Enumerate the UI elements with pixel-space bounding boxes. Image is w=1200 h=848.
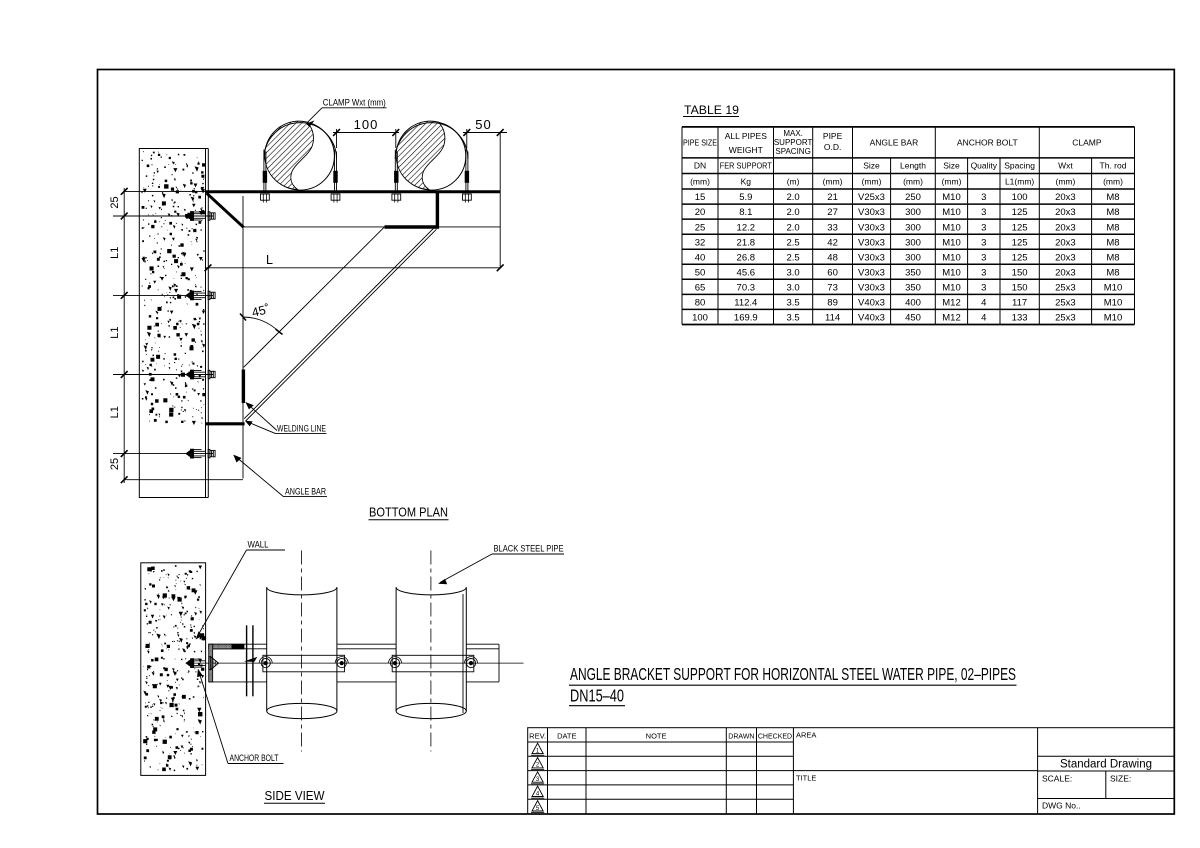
svg-text:3.5: 3.5 (786, 298, 799, 309)
svg-text:SCALE:: SCALE: (1042, 773, 1072, 783)
svg-text:Size: Size (943, 161, 960, 171)
svg-text:125: 125 (1012, 207, 1028, 218)
svg-text:SUPPORT: SUPPORT (774, 138, 813, 147)
svg-text:3.0: 3.0 (786, 267, 799, 278)
45 degree angle annotation (243, 317, 279, 332)
svg-text:112.4: 112.4 (734, 298, 757, 309)
svg-text:21.8: 21.8 (737, 237, 756, 248)
svg-text:PIPE: PIPE (823, 131, 843, 141)
svg-text:33: 33 (827, 222, 838, 233)
svg-text:NOTE: NOTE (646, 731, 667, 740)
svg-text:45.6: 45.6 (737, 267, 756, 278)
svg-text:Size: Size (863, 161, 880, 171)
svg-text:(mm): (mm) (823, 177, 843, 187)
clamp bolt (337, 659, 346, 668)
small arrow at gusset (244, 657, 257, 662)
svg-text:SPACING: SPACING (775, 147, 810, 156)
svg-text:M10: M10 (942, 207, 960, 218)
page frame (98, 70, 1175, 815)
clamp band (395, 123, 468, 159)
svg-text:DATE: DATE (557, 731, 576, 740)
wall speckle fill (side view) (143, 565, 206, 771)
svg-text:WEIGHT: WEIGHT (729, 145, 763, 155)
svg-text:73: 73 (827, 283, 838, 294)
svg-text:DRAWN: DRAWN (728, 733, 754, 740)
svg-text:4: 4 (981, 313, 986, 324)
svg-text:3: 3 (981, 283, 986, 294)
angle bracket thick outline (206, 192, 501, 424)
clamp leg (394, 150, 396, 191)
svg-text:BLACK STEEL PIPE: BLACK STEEL PIPE (494, 544, 564, 555)
svg-text:M8: M8 (1106, 267, 1119, 278)
svg-text:25: 25 (109, 458, 121, 470)
svg-text:Kg: Kg (741, 177, 752, 187)
clamp tensioner (333, 171, 337, 183)
svg-text:V40x3: V40x3 (858, 313, 885, 324)
svg-text:ANGLE BAR: ANGLE BAR (285, 486, 326, 497)
svg-text:3: 3 (981, 192, 986, 203)
svg-text:ANGLE BAR: ANGLE BAR (870, 138, 919, 148)
svg-text:21: 21 (827, 192, 838, 203)
svg-text:2.0: 2.0 (786, 192, 799, 203)
svg-text:M10: M10 (942, 267, 960, 278)
brace diagonal (double edge) (244, 228, 434, 419)
clamp leg (465, 150, 467, 191)
svg-text:48: 48 (827, 252, 838, 263)
svg-text:42: 42 (827, 237, 838, 248)
svg-text:100: 100 (1012, 192, 1028, 203)
svg-text:3: 3 (981, 252, 986, 263)
svg-text:(m): (m) (787, 177, 800, 187)
svg-text:TITLE: TITLE (796, 773, 816, 782)
svg-text:350: 350 (905, 267, 921, 278)
inner line right of pipe2 (462, 594, 464, 713)
svg-text:L1: L1 (109, 406, 121, 418)
svg-text:2.0: 2.0 (786, 207, 799, 218)
svg-text:MAX.: MAX. (783, 129, 803, 138)
svg-text:M12: M12 (942, 313, 960, 324)
svg-text:DN15–40: DN15–40 (570, 686, 624, 706)
brace diagonal (single edge) (244, 227, 385, 367)
svg-text:3: 3 (981, 237, 986, 248)
title block grid (528, 728, 1175, 814)
svg-text:L1: L1 (109, 326, 121, 338)
svg-text:169.9: 169.9 (734, 313, 758, 324)
svg-text:15: 15 (695, 192, 706, 203)
svg-text:M8: M8 (1106, 192, 1119, 203)
svg-text:DN: DN (694, 161, 706, 171)
svg-text:125: 125 (1012, 252, 1028, 263)
svg-text:250: 250 (905, 192, 921, 203)
table 19 grid (682, 127, 1135, 325)
svg-text:(mm): (mm) (942, 177, 962, 187)
pipe centerline (430, 551, 432, 752)
black steel pipe (side view) x=431.2 (396, 587, 466, 718)
table header texts (683, 129, 1127, 324)
svg-text:50: 50 (695, 267, 706, 278)
dimension 50 (463, 129, 507, 148)
anchor bolt (plan) y=295.4 (186, 291, 215, 300)
svg-text:32: 32 (695, 237, 706, 248)
svg-text:(mm): (mm) (690, 177, 710, 187)
svg-text:M8: M8 (1106, 207, 1119, 218)
svg-text:V30x3: V30x3 (858, 222, 885, 233)
svg-text:TABLE 19: TABLE 19 (684, 103, 739, 117)
pipe hatch (yin-yang section) (396, 121, 445, 189)
clamp band (264, 123, 337, 159)
title block labels (529, 731, 1152, 811)
dimension 100 (333, 129, 399, 148)
svg-text:3.5: 3.5 (786, 313, 799, 324)
svg-text:133: 133 (1012, 313, 1028, 324)
svg-text:150: 150 (1012, 267, 1028, 278)
svg-text:100: 100 (354, 117, 379, 132)
svg-text:60: 60 (827, 267, 838, 278)
svg-text:12.2: 12.2 (737, 222, 756, 233)
pipe clamp strap (side view) (392, 655, 474, 672)
svg-text:M10: M10 (1104, 313, 1122, 324)
svg-text:20x3: 20x3 (1055, 237, 1076, 248)
anchor bolt (plan) y=453.6 (186, 449, 215, 458)
svg-text:350: 350 (905, 283, 921, 294)
svg-text:M10: M10 (942, 192, 960, 203)
svg-text:150: 150 (1012, 283, 1028, 294)
pipe centerline (301, 551, 303, 752)
svg-text:M10: M10 (942, 237, 960, 248)
svg-text:25x3: 25x3 (1055, 313, 1076, 324)
svg-text:V25x3: V25x3 (858, 192, 885, 203)
svg-text:65: 65 (695, 283, 706, 294)
svg-text:20x3: 20x3 (1055, 267, 1076, 278)
dimension chain 25/L1/L1/L1/25 (113, 188, 243, 483)
svg-text:WALL: WALL (248, 540, 269, 551)
svg-text:L: L (266, 253, 273, 267)
svg-text:CLAMP Wxt (mm): CLAMP Wxt (mm) (323, 98, 386, 109)
gusset plate edge-on (double verticals) (246, 625, 248, 696)
svg-text:27: 27 (827, 207, 838, 218)
svg-text:25: 25 (109, 196, 121, 208)
svg-text:25x3: 25x3 (1055, 283, 1076, 294)
svg-text:FER SUPPORT: FER SUPPORT (720, 161, 772, 171)
svg-text:ANGLE BRACKET SUPPORT FOR HORI: ANGLE BRACKET SUPPORT FOR HORIZONTAL STE… (570, 664, 1016, 684)
anchor bolt (side view) (186, 659, 206, 668)
svg-text:20x3: 20x3 (1055, 222, 1076, 233)
svg-text:(mm): (mm) (862, 177, 882, 187)
svg-text:3: 3 (981, 222, 986, 233)
svg-text:(mm): (mm) (1103, 177, 1123, 187)
svg-text:300: 300 (905, 252, 921, 263)
svg-text:2.5: 2.5 (786, 252, 799, 263)
wall speckle fill (concrete) (142, 151, 206, 425)
clamp bolt (261, 659, 270, 668)
svg-text:M10: M10 (1104, 298, 1122, 309)
svg-text:20x3: 20x3 (1055, 252, 1076, 263)
svg-text:25x3: 25x3 (1055, 298, 1076, 309)
svg-text:O.D.: O.D. (824, 142, 841, 152)
bracket thin edges (243, 133, 500, 479)
svg-text:BOTTOM PLAN: BOTTOM PLAN (369, 506, 448, 520)
clamp leg (263, 150, 265, 191)
svg-text:M10: M10 (942, 283, 960, 294)
svg-text:400: 400 (905, 298, 921, 309)
svg-text:450: 450 (905, 313, 921, 324)
svg-text:WELDING LINE: WELDING LINE (277, 423, 326, 434)
clamp tensioner (263, 171, 267, 183)
svg-text:2.0: 2.0 (786, 222, 799, 233)
svg-text:5.9: 5.9 (739, 192, 752, 203)
svg-text:M8: M8 (1106, 252, 1119, 263)
svg-text:Standard Drawing: Standard Drawing (1060, 758, 1152, 770)
angle bar edges (side view) (209, 644, 500, 682)
angle section hatched legs (209, 644, 244, 682)
pipe clamp strap (side view) (263, 655, 345, 672)
svg-text:3.0: 3.0 (786, 283, 799, 294)
svg-text:CHECKED: CHECKED (758, 733, 792, 740)
svg-text:89: 89 (827, 298, 838, 309)
svg-text:L1: L1 (109, 247, 121, 259)
clamp nut below bar (331, 194, 340, 200)
svg-text:80: 80 (695, 298, 706, 309)
svg-text:V30x3: V30x3 (858, 252, 885, 263)
svg-text:Th. rod: Th. rod (1100, 161, 1127, 171)
wall (bottom plan) (139, 149, 208, 498)
svg-text:26.8: 26.8 (737, 252, 756, 263)
pipe hatch (yin-yang section) (265, 121, 314, 189)
svg-text:DWG No..: DWG No.. (1042, 801, 1081, 811)
svg-text:125: 125 (1012, 237, 1028, 248)
svg-text:M8: M8 (1106, 222, 1119, 233)
svg-text:Spacing: Spacing (1004, 161, 1035, 171)
svg-text:4: 4 (981, 298, 986, 309)
svg-text:40: 40 (695, 252, 706, 263)
svg-text:M8: M8 (1106, 237, 1119, 248)
svg-text:117: 117 (1012, 298, 1027, 309)
svg-text:(mm): (mm) (903, 177, 923, 187)
svg-text:ALL PIPES: ALL PIPES (725, 131, 768, 141)
svg-text:300: 300 (905, 237, 921, 248)
svg-text:300: 300 (905, 222, 921, 233)
svg-text:V30x3: V30x3 (858, 207, 885, 218)
pipe circle at x=300.2 (plan) (266, 122, 334, 190)
svg-text:25: 25 (695, 222, 706, 233)
svg-text:Quality: Quality (971, 161, 998, 171)
clamp bolt (466, 659, 475, 668)
svg-text:V40x3: V40x3 (858, 298, 885, 309)
svg-text:V30x3: V30x3 (858, 237, 885, 248)
svg-text:Length: Length (900, 161, 926, 171)
clamp tensioner (465, 171, 469, 183)
svg-text:70.3: 70.3 (737, 283, 756, 294)
clamp bolt (390, 659, 399, 668)
revision triangles 1-5 (532, 743, 543, 753)
svg-text:AREA: AREA (796, 731, 816, 740)
svg-text:50: 50 (475, 117, 491, 132)
svg-text:CLAMP: CLAMP (1072, 138, 1102, 148)
svg-text:PIPE SIZE: PIPE SIZE (683, 139, 717, 148)
bar centerline (side view) (186, 662, 524, 664)
pipe circle at x=431.6 (plan) (397, 122, 465, 190)
svg-text:100: 100 (692, 313, 708, 324)
svg-text:125: 125 (1012, 222, 1028, 233)
clamp tensioner (394, 171, 398, 183)
clamp nut below bar (261, 194, 270, 200)
svg-text:8.1: 8.1 (739, 207, 752, 218)
svg-text:SIDE VIEW: SIDE VIEW (265, 789, 325, 803)
svg-text:20x3: 20x3 (1055, 207, 1076, 218)
svg-text:V30x3: V30x3 (858, 267, 885, 278)
svg-text:ANCHOR BOLT: ANCHOR BOLT (957, 138, 1018, 148)
svg-text:(mm): (mm) (1055, 177, 1075, 187)
svg-text:SIZE:: SIZE: (1110, 773, 1131, 783)
svg-text:3: 3 (981, 267, 986, 278)
svg-text:Wxt: Wxt (1058, 161, 1073, 171)
svg-text:M12: M12 (942, 298, 960, 309)
black steel pipe (side view) x=301.8 (267, 587, 337, 718)
svg-text:20x3: 20x3 (1055, 192, 1076, 203)
svg-text:L1(mm): L1(mm) (1005, 177, 1034, 187)
svg-text:M10: M10 (942, 222, 960, 233)
svg-text:3: 3 (981, 207, 986, 218)
clamp nut below bar (392, 194, 401, 200)
svg-text:20: 20 (695, 207, 706, 218)
svg-text:V30x3: V30x3 (858, 283, 885, 294)
svg-text:2.5: 2.5 (786, 237, 799, 248)
clamp leg (334, 150, 336, 191)
clamp nut below bar (463, 194, 472, 200)
dimension L (206, 267, 501, 269)
anchor bolt (plan) y=216 (186, 212, 215, 221)
svg-text:300: 300 (905, 207, 921, 218)
wall (side view) (141, 563, 206, 776)
svg-text:M10: M10 (942, 252, 960, 263)
svg-text:ANCHOR BOLT: ANCHOR BOLT (230, 753, 279, 764)
svg-text:114: 114 (825, 313, 840, 324)
anchor bolt (plan) y=374.5 (186, 370, 215, 379)
svg-text:REV.: REV. (529, 731, 546, 740)
svg-text:M10: M10 (1104, 283, 1122, 294)
